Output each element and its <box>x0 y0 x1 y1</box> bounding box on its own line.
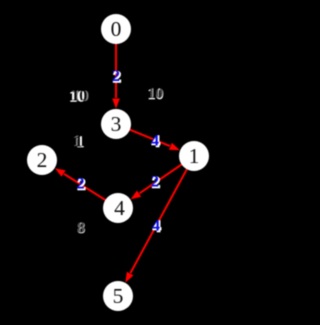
svg-text:1: 1 <box>189 144 200 168</box>
svg-text:0: 0 <box>111 17 122 41</box>
svg-text:2: 2 <box>112 68 120 85</box>
svg-text:5: 5 <box>113 284 124 308</box>
svg-text:1: 1 <box>75 134 83 151</box>
svg-text:4: 4 <box>152 218 160 235</box>
svg-text:3: 3 <box>111 112 122 136</box>
svg-text:8: 8 <box>77 220 85 237</box>
svg-text:2: 2 <box>37 148 48 172</box>
svg-text:4: 4 <box>114 196 125 220</box>
svg-text:10: 10 <box>147 85 163 102</box>
svg-text:10: 10 <box>71 88 87 105</box>
svg-text:2: 2 <box>77 176 85 193</box>
svg-text:2: 2 <box>151 174 159 191</box>
svg-text:4: 4 <box>151 133 159 150</box>
